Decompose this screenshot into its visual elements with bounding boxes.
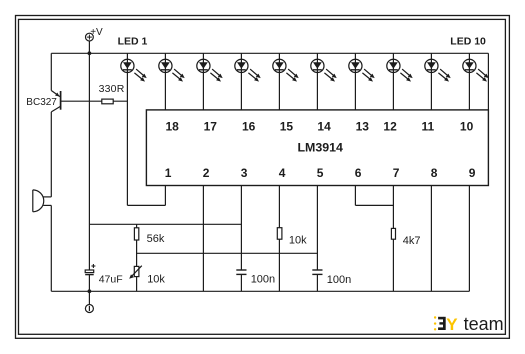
svg-text:LED 1: LED 1 bbox=[118, 36, 148, 48]
svg-text:8: 8 bbox=[431, 166, 438, 180]
svg-text:+V: +V bbox=[90, 27, 103, 38]
svg-text:1: 1 bbox=[165, 166, 172, 180]
svg-text:Y: Y bbox=[446, 315, 458, 334]
svg-text:2: 2 bbox=[203, 166, 210, 180]
svg-text:16: 16 bbox=[242, 120, 256, 134]
svg-text:100n: 100n bbox=[327, 274, 351, 286]
svg-text:4k7: 4k7 bbox=[403, 235, 421, 247]
svg-text:56k: 56k bbox=[147, 233, 165, 245]
svg-text:7: 7 bbox=[393, 166, 400, 180]
svg-text:100n: 100n bbox=[251, 273, 275, 285]
svg-text:9: 9 bbox=[469, 166, 476, 180]
svg-text:47uF: 47uF bbox=[99, 273, 123, 285]
svg-text:14: 14 bbox=[317, 120, 331, 134]
svg-text:LED 10: LED 10 bbox=[450, 36, 486, 48]
svg-text:4: 4 bbox=[279, 166, 286, 180]
svg-text:team: team bbox=[464, 314, 504, 334]
svg-text:13: 13 bbox=[356, 120, 370, 134]
svg-text:15: 15 bbox=[280, 120, 294, 134]
svg-text:10: 10 bbox=[460, 120, 474, 134]
svg-text:LM3914: LM3914 bbox=[297, 140, 343, 154]
svg-text:BC327: BC327 bbox=[26, 97, 57, 108]
svg-text:10k: 10k bbox=[289, 235, 307, 247]
svg-text:10k: 10k bbox=[147, 273, 165, 285]
svg-text:18: 18 bbox=[166, 120, 180, 134]
svg-text:12: 12 bbox=[383, 120, 397, 134]
svg-text:17: 17 bbox=[204, 120, 218, 134]
svg-text:330R: 330R bbox=[99, 83, 125, 95]
svg-text:11: 11 bbox=[422, 120, 435, 134]
svg-text:6: 6 bbox=[355, 166, 362, 180]
svg-text:5: 5 bbox=[317, 166, 324, 180]
svg-text:3: 3 bbox=[241, 166, 248, 180]
